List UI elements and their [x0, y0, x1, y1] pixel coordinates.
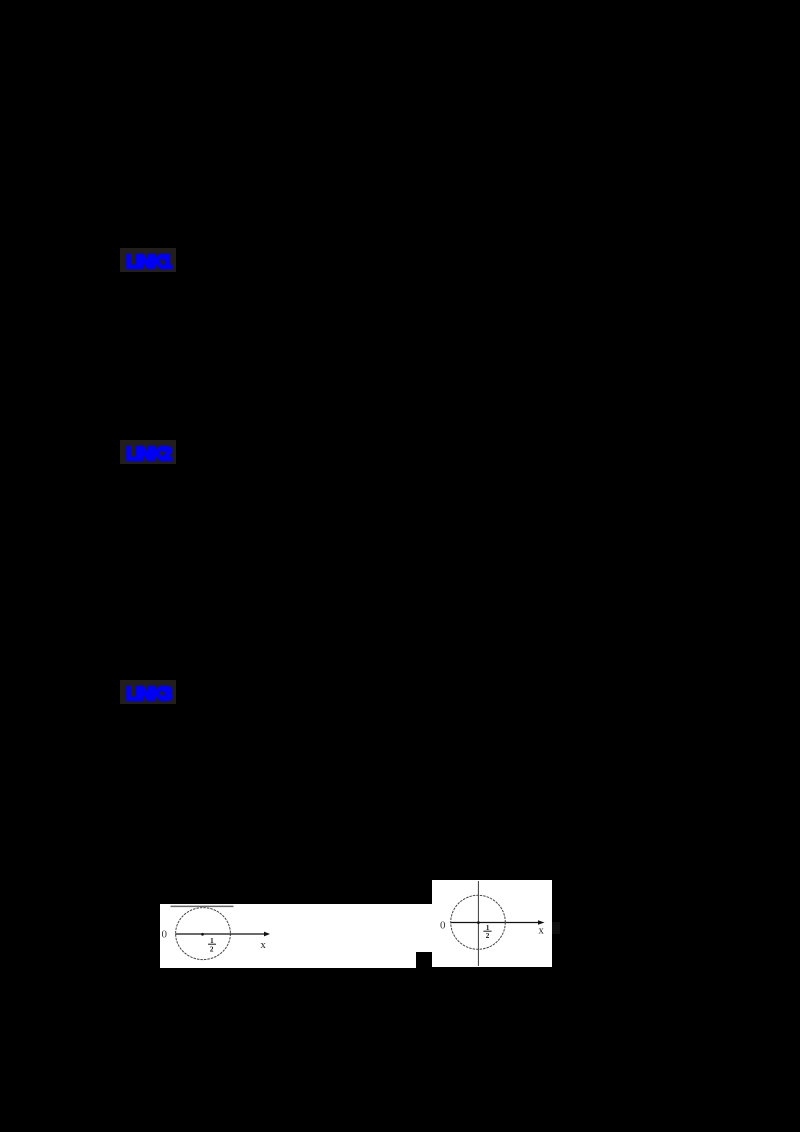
svg-text:0: 0 [162, 929, 168, 941]
svg-text:x: x [261, 940, 267, 951]
svg-text:x: x [539, 925, 545, 936]
svg-text:2: 2 [486, 931, 490, 940]
svg-text:2: 2 [210, 944, 214, 953]
svg-text:0: 0 [440, 919, 446, 931]
